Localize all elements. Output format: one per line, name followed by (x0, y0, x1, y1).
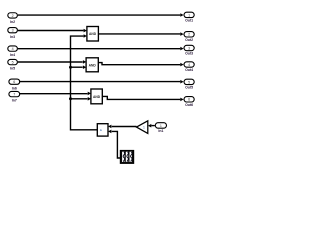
wire In3 to AND1 input 1 (18, 30, 84, 32)
outport Out3 (184, 45, 194, 55)
svg-text:In4: In4 (10, 53, 15, 57)
svg-text:In7: In7 (12, 99, 17, 103)
wire In5 to AND2 input 1 (18, 61, 83, 63)
svg-text:6: 6 (188, 98, 190, 102)
svg-text:Out6: Out6 (185, 103, 193, 107)
svg-text:Out5: Out5 (185, 86, 193, 90)
outport Out1 arrowhead (180, 13, 183, 17)
inport In7 (9, 91, 20, 102)
svg-text:Out3: Out3 (185, 52, 193, 56)
wire In4 to Out3 (18, 48, 180, 50)
svg-text:In3: In3 (10, 35, 15, 39)
AND gate U1 (87, 27, 99, 42)
latch block U4 (flipped, inputs on right) (97, 124, 108, 136)
wire In2 to Out1 (18, 14, 180, 16)
wire In6 to Out5 (19, 81, 180, 83)
svg-text:1: 1 (160, 124, 162, 128)
svg-text:Out4: Out4 (185, 68, 193, 72)
svg-text:2: 2 (188, 33, 190, 37)
svg-text:In1: In1 (158, 129, 163, 133)
inport In6 (9, 79, 20, 90)
svg-text:7: 7 (13, 93, 15, 97)
outport Out2 (184, 32, 194, 42)
svg-text:1: 1 (188, 13, 190, 17)
branch wire to AND3 input 2 (71, 98, 88, 100)
wire AND1 out to Out2 (98, 33, 180, 35)
inport In5 (8, 59, 18, 70)
svg-text:Out2: Out2 (185, 38, 193, 42)
svg-text:3: 3 (12, 29, 14, 33)
outport Out5 arrowhead (180, 80, 183, 84)
outport Out2 arrowhead (180, 32, 183, 36)
wire In1 to gain input (151, 125, 155, 127)
svg-text:In2: In2 (10, 20, 15, 24)
inport In2 (8, 13, 18, 24)
gain Q1 (triangle, flipped left) (137, 121, 148, 134)
branch wire to AND2 input 2 (71, 66, 83, 68)
svg-text:2: 2 (12, 14, 14, 18)
svg-text:1: 1 (143, 125, 145, 129)
svg-text:In6: In6 (12, 86, 17, 90)
svg-text:AND: AND (89, 63, 97, 67)
wire source to latch input 2 (112, 131, 121, 158)
outport Out4 arrowhead (180, 63, 183, 67)
outport Out1 (184, 12, 194, 22)
outport Out3 arrowhead (180, 47, 183, 51)
outport Out5 (184, 79, 194, 89)
wire In7 to AND3 input 1 (19, 93, 87, 95)
wire gain out to latch input 1 (112, 126, 137, 128)
outport Out6 arrowhead (180, 98, 183, 102)
wire AND2 out to Out4 (98, 63, 180, 65)
feedback wire from latch output up to AND1 input 2 (71, 36, 98, 130)
svg-text:4: 4 (12, 47, 14, 51)
AND gate U2 (86, 58, 98, 72)
svg-text:▸: ▸ (100, 128, 102, 132)
AND gate U3 (91, 89, 102, 104)
svg-text:AND: AND (93, 95, 101, 99)
inport In1 (155, 123, 166, 133)
inport In4 (8, 46, 18, 57)
wire AND3 out to Out6 (102, 96, 180, 99)
svg-text:5: 5 (188, 80, 190, 84)
svg-text:5: 5 (12, 61, 14, 65)
svg-text:3: 3 (188, 46, 190, 50)
svg-text:6: 6 (13, 80, 15, 84)
outport Out6 (184, 97, 194, 107)
junction node A (69, 66, 72, 69)
outport Out4 (184, 62, 194, 72)
svg-text:AND: AND (89, 32, 97, 36)
svg-text:In5: In5 (10, 67, 15, 71)
signal source block (striped icon) (120, 150, 133, 163)
svg-text:Out1: Out1 (185, 19, 193, 23)
inport In3 (8, 28, 18, 39)
svg-text:4: 4 (188, 63, 190, 67)
junction node B (69, 97, 72, 100)
